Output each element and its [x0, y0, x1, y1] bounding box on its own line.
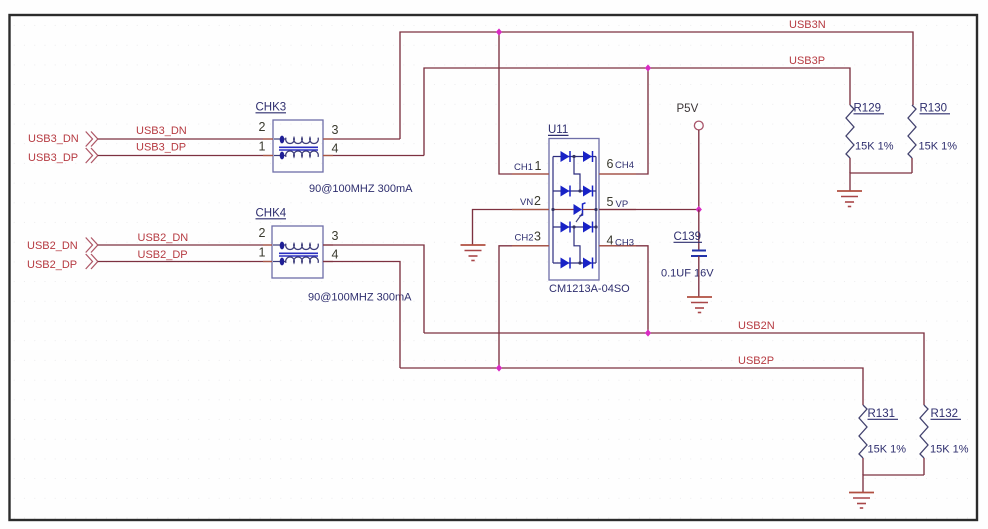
svg-text:4: 4 [332, 248, 339, 262]
U11 pin stubs [512, 174, 636, 246]
svg-text:VP: VP [616, 199, 629, 210]
svg-text:0.1UF 16V: 0.1UF 16V [661, 268, 714, 280]
svg-text:CH2: CH2 [515, 233, 534, 244]
svg-text:R132: R132 [931, 408, 959, 420]
R129 refdes [854, 103, 885, 115]
wire R131 R132 to ground [863, 475, 924, 493]
U11 pin numbers [534, 157, 614, 248]
svg-text:15K 1%: 15K 1% [855, 141, 894, 153]
svg-text:3: 3 [534, 230, 541, 244]
junction at USB2P riser [496, 364, 502, 371]
svg-text:P5V: P5V [677, 103, 699, 115]
choke CHK3 [273, 120, 323, 172]
svg-text:R130: R130 [920, 103, 948, 115]
svg-text:3: 3 [332, 229, 339, 243]
svg-text:C139: C139 [674, 231, 702, 243]
wire USB3P to U11 CH4 [599, 68, 648, 174]
R131 refdes [868, 408, 899, 420]
wire USB3N to U11 CH1 [499, 32, 549, 174]
svg-text:CHK3: CHK3 [256, 102, 287, 114]
svg-text:CHK4: CHK4 [256, 208, 287, 220]
svg-text:USB3_DP: USB3_DP [136, 142, 186, 154]
junction at USB2N riser [645, 329, 651, 336]
power P5V [677, 103, 704, 210]
wire C139 to ground [698, 256, 700, 297]
U11 diode pair row 2 [553, 186, 596, 197]
svg-text:3: 3 [332, 123, 339, 137]
U11 zener diode [553, 203, 596, 222]
svg-text:CM1213A-04SO: CM1213A-04SO [549, 283, 630, 295]
svg-text:90@100MHZ 300mA: 90@100MHZ 300mA [308, 292, 412, 304]
ESD array U11 [549, 139, 599, 281]
port USB2_DN [27, 238, 98, 253]
wire P5V to C139 [698, 210, 700, 251]
junction at USB3N riser [496, 28, 502, 35]
wire U11 CH2 to USB2P [499, 246, 549, 368]
CHK4 pin stubs [263, 245, 333, 262]
svg-text:USB3N: USB3N [789, 19, 826, 31]
resistor R132 [920, 405, 928, 475]
U11 diode pair row 1 [553, 151, 596, 162]
port USB3_DN [28, 132, 98, 147]
svg-text:CH3: CH3 [615, 238, 634, 249]
U11 internal junction dots [551, 155, 597, 265]
U11 refdes [548, 124, 569, 136]
wire CHK3 pin3 to USB3N riser [323, 138, 400, 140]
wire U11 CH3 to USB2N [599, 246, 648, 333]
svg-text:4: 4 [332, 142, 339, 156]
svg-text:15K 1%: 15K 1% [919, 141, 958, 153]
wire U11 VP to P5V [599, 209, 699, 211]
CHK3 pin numbers [259, 120, 339, 156]
capacitor C139 [691, 251, 707, 257]
U11 internal taps [574, 157, 580, 264]
R132 refdes [931, 408, 962, 420]
junction at USB3P riser [645, 64, 651, 71]
svg-text:USB3P: USB3P [789, 55, 825, 67]
resistor R130 [908, 105, 916, 173]
C139 refdes [674, 231, 703, 243]
CHK3 pin stubs [263, 139, 333, 156]
wire U11 VN to ground [473, 210, 550, 246]
svg-text:90@100MHZ 300mA: 90@100MHZ 300mA [309, 183, 413, 195]
U11 diode pair row 5 [553, 258, 596, 269]
wire USB2P [400, 368, 863, 405]
svg-text:1: 1 [259, 140, 266, 154]
CHK3 refdes [256, 102, 287, 114]
svg-text:USB3_DN: USB3_DN [28, 133, 79, 145]
svg-text:VN: VN [520, 197, 533, 208]
resistor R129 [846, 105, 854, 173]
junction at VP [696, 206, 702, 213]
svg-text:USB2N: USB2N [738, 320, 775, 332]
wire USB3N [400, 32, 913, 139]
svg-text:U11: U11 [548, 124, 568, 136]
svg-text:R129: R129 [854, 103, 882, 115]
wire USB3P [424, 68, 850, 156]
ground at R131 R132 [849, 493, 874, 509]
ground at R129 R130 [837, 191, 862, 207]
port USB2_DP [27, 254, 98, 271]
svg-text:2: 2 [259, 120, 266, 134]
choke CHK4 [272, 226, 323, 278]
svg-text:CH4: CH4 [615, 160, 634, 171]
svg-text:1: 1 [259, 246, 266, 260]
wire USB3_DN to CHK3 pin2 [98, 138, 273, 140]
svg-text:CH1: CH1 [514, 162, 533, 173]
svg-text:1: 1 [535, 159, 542, 173]
wire R129 R130 to ground [850, 173, 912, 191]
svg-text:USB3_DP: USB3_DP [28, 152, 78, 164]
svg-text:USB2_DN: USB2_DN [27, 240, 78, 252]
wire CHK4 pin3 to USB2N [323, 245, 424, 333]
wire USB2_DN to CHK4 pin2 [98, 244, 272, 246]
CHK4 refdes [256, 208, 287, 220]
port USB3_DP [28, 148, 98, 164]
resistor R131 [859, 405, 867, 475]
svg-text:USB2_DN: USB2_DN [138, 232, 189, 244]
svg-text:4: 4 [607, 234, 614, 248]
ground at C139 [687, 297, 712, 313]
CHK4 pin numbers [259, 226, 339, 262]
svg-text:15K 1%: 15K 1% [930, 444, 969, 456]
svg-text:6: 6 [607, 157, 614, 171]
R130 refdes [920, 103, 951, 115]
svg-text:USB3_DN: USB3_DN [136, 125, 187, 137]
ground at VN [461, 245, 486, 261]
wire CHK3 pin4 to USB3P riser [323, 155, 424, 157]
wire USB2N [424, 333, 924, 405]
svg-text:USB2_DP: USB2_DP [27, 259, 77, 271]
svg-text:USB2_DP: USB2_DP [138, 249, 188, 261]
svg-text:USB2P: USB2P [738, 355, 774, 367]
wire USB3_DP to CHK3 pin1 [98, 155, 273, 157]
svg-text:2: 2 [259, 226, 266, 240]
svg-text:5: 5 [607, 195, 614, 209]
svg-text:2: 2 [534, 194, 541, 208]
svg-text:15K 1%: 15K 1% [868, 444, 907, 456]
U11 pin names [514, 160, 634, 249]
U11 diode pair row 4 [553, 222, 596, 233]
wire USB2_DP to CHK4 pin1 [98, 261, 272, 263]
wire CHK4 pin4 to USB2P [323, 262, 400, 369]
svg-text:R131: R131 [868, 408, 896, 420]
